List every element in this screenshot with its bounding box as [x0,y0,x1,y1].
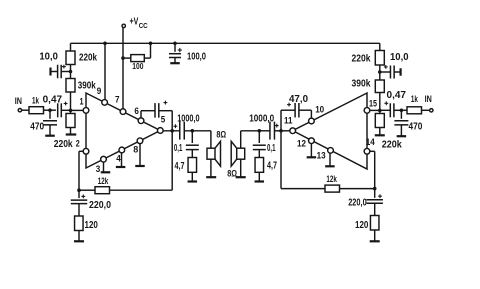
resistor 4,7 right [255,158,263,173]
capacitor 470 right [400,110,402,119]
resistor 1k right [407,107,422,114]
svg-text:470: 470 [409,122,423,133]
pin 12 [309,138,315,144]
ground for speaker left [210,159,212,177]
wire Vcc vertical to pin 7 [122,28,124,109]
resistor 390k right [375,80,384,93]
node left input junction [48,108,52,112]
op-amp left (triangle) [86,93,160,168]
pin 2 [83,148,89,154]
node Vcc-R100 junction [121,56,125,60]
svg-text:8Ω: 8Ω [216,129,226,140]
node left divider mid [69,70,73,74]
svg-text:4: 4 [116,154,121,165]
capacitor 1000,0 right [259,130,269,132]
capacitor 220,0 left [78,190,80,198]
svg-text:2: 2 [76,139,80,150]
resistor 120 right [370,216,379,231]
node left feedback junction [77,188,81,192]
capacitor 220,0 right [374,189,376,198]
resistor 4,7 left [188,158,197,173]
svg-text:9: 9 [97,86,102,97]
svg-text:4,7: 4,7 [267,160,277,171]
wire 1000,0 to speaker node [184,130,211,132]
svg-text:12: 12 [297,138,306,149]
svg-text:14: 14 [366,137,376,148]
svg-text:220k: 220k [54,139,73,150]
ground for 10,0 left [49,68,51,76]
node right divider mid [378,70,382,74]
terminal IN left [18,109,21,112]
svg-text:390k: 390k [352,79,371,90]
pin 11 [290,128,296,134]
svg-text:15: 15 [369,99,378,110]
svg-text:1000,0: 1000,0 [177,113,200,124]
svg-text:100,0: 100,0 [187,52,206,63]
node rail-R100 junction [149,42,153,46]
svg-text:CC: CC [139,23,148,30]
ground for pin 8 [139,143,141,165]
svg-text:120: 120 [85,220,99,231]
svg-text:220k: 220k [382,140,402,151]
wire IN to 1k [22,109,29,111]
wire pin 9 to rail [104,43,106,100]
ground for 120 left [78,231,80,241]
node left output junction [170,129,174,133]
capacitor bootstrap left (pin6 to output) [140,111,142,118]
wire right output to pin 11 [281,130,290,132]
svg-text:220k: 220k [79,53,97,64]
svg-text:11: 11 [284,116,293,127]
ground for 100,0 [170,62,180,64]
capacitor 1000,0 left [179,122,181,140]
svg-text:12k: 12k [98,176,109,187]
wire 1k to IN right [422,109,430,111]
svg-text:IN: IN [425,94,432,105]
wire pin 2 to feedback [79,150,83,152]
capacitor 10,0 right [380,71,391,73]
svg-text:3: 3 [96,164,101,175]
svg-text:220,0: 220,0 [89,200,111,211]
ground for 4,7 right [258,172,260,181]
wire left feedback vertical [171,131,173,190]
resistor 390k left [66,79,75,93]
svg-text:220k: 220k [352,54,371,65]
node left speaker junction [191,129,195,133]
svg-text:10,0: 10,0 [39,52,58,63]
svg-text:1: 1 [80,97,85,108]
pin 3 [101,156,107,162]
capacitor 0,47 right [389,103,391,117]
ground for 470 right [397,135,407,137]
ground for speaker right [240,159,242,177]
wire pin 5 output [163,130,180,132]
wire +Vcc supply rail [71,42,380,44]
resistor 220k right upper [375,51,384,66]
node right input bias node [378,109,382,113]
wire 1k to 0,47 [44,109,56,111]
ground for pin 13 [329,153,331,166]
wire rail left corner down [70,43,72,51]
wire 220k to divider node [70,65,72,79]
node right input junction [400,109,404,113]
capacitor 100,0 (supply filter) [174,43,176,52]
svg-text:13: 13 [317,151,326,162]
node rail-pin9 junction [103,42,107,46]
resistor 220k left upper [66,51,75,65]
resistor 12k left [79,189,95,191]
pin 8 [137,138,143,144]
svg-text:1k: 1k [411,94,418,105]
svg-text:+V: +V [130,17,139,28]
ground for pin 3 [103,162,105,172]
pin 1 [83,108,89,114]
resistor 220k right lower [375,114,384,128]
resistor 220k left lower [66,114,75,128]
capacitor 470 left [49,110,51,119]
svg-text:47,0: 47,0 [289,94,308,105]
ground for 470 left [45,135,55,137]
capacitor 0,1 left [191,131,193,143]
svg-text:220,0: 220,0 [348,197,367,208]
resistor 12k right [281,188,325,190]
wire pin 14 to feedback [370,150,375,152]
ground for pin 12 [310,143,312,157]
pin 15 [364,108,370,114]
wire to right divider node [379,65,381,80]
svg-text:1k: 1k [32,96,39,107]
wire 390k to input node [70,92,72,114]
pin 13 [328,148,334,154]
svg-text:0,47: 0,47 [43,95,63,106]
wire right feedback vertical [280,131,282,189]
resistor 120 left [75,216,84,231]
ground for 220k left lower [66,133,77,135]
wire rail right corner down [379,43,381,50]
pin 9 [102,100,108,106]
svg-text:7: 7 [115,95,120,106]
svg-text:10: 10 [315,105,324,116]
svg-text:100: 100 [132,61,143,71]
terminal IN right [430,109,433,112]
svg-text:4,7: 4,7 [175,161,185,172]
pin 5 [157,128,163,134]
ground for 120 right [374,230,376,241]
svg-text:120: 120 [355,220,369,231]
wire right input node to pin 15 [370,109,380,111]
svg-text:0,1: 0,1 [267,143,276,154]
svg-text:10,0: 10,0 [390,52,409,63]
wire 390k to right input node [379,93,381,114]
svg-text:470: 470 [30,121,44,132]
resistor 100 (supply decoupling) [123,57,131,59]
capacitor 10,0 left [62,71,71,73]
svg-text:0,47: 0,47 [387,90,407,101]
op-amp right (triangle) [293,93,367,169]
node left input bias node [69,109,73,113]
pin 7 [120,109,126,115]
pin 6 [138,118,144,124]
svg-text:390k: 390k [78,81,96,92]
capacitor 47,0 right (pin10 to output) [310,110,312,118]
speaker left 8ohm [210,131,212,148]
node right output junction [279,129,283,133]
svg-text:IN: IN [15,96,22,107]
capacitor 0,47 left [57,103,59,117]
ground for 4,7 left [191,172,193,181]
resistor 1k left [29,107,44,114]
pin 4 [119,147,125,153]
svg-text:6: 6 [134,106,139,117]
svg-text:5: 5 [161,115,166,126]
node right feedback junction [373,187,377,191]
svg-text:8: 8 [133,145,138,156]
node right speaker junction [258,129,262,133]
ground for 10,0 right [400,68,402,76]
node rail-C100 junction [173,42,177,46]
speaker right 8ohm [237,148,245,159]
pin 14 [364,148,370,154]
svg-text:1000,0: 1000,0 [249,113,274,124]
capacitor 0,1 right [258,131,260,143]
svg-text:12k: 12k [326,174,337,185]
wire input node to pin 1 [71,109,84,111]
svg-text:8Ω: 8Ω [227,169,237,180]
ground for 220k right lower [375,134,385,136]
svg-text:0,1: 0,1 [174,143,183,154]
terminal +Vcc [122,24,125,27]
pin 10 [309,118,315,124]
ground for pin 4 [121,153,123,167]
